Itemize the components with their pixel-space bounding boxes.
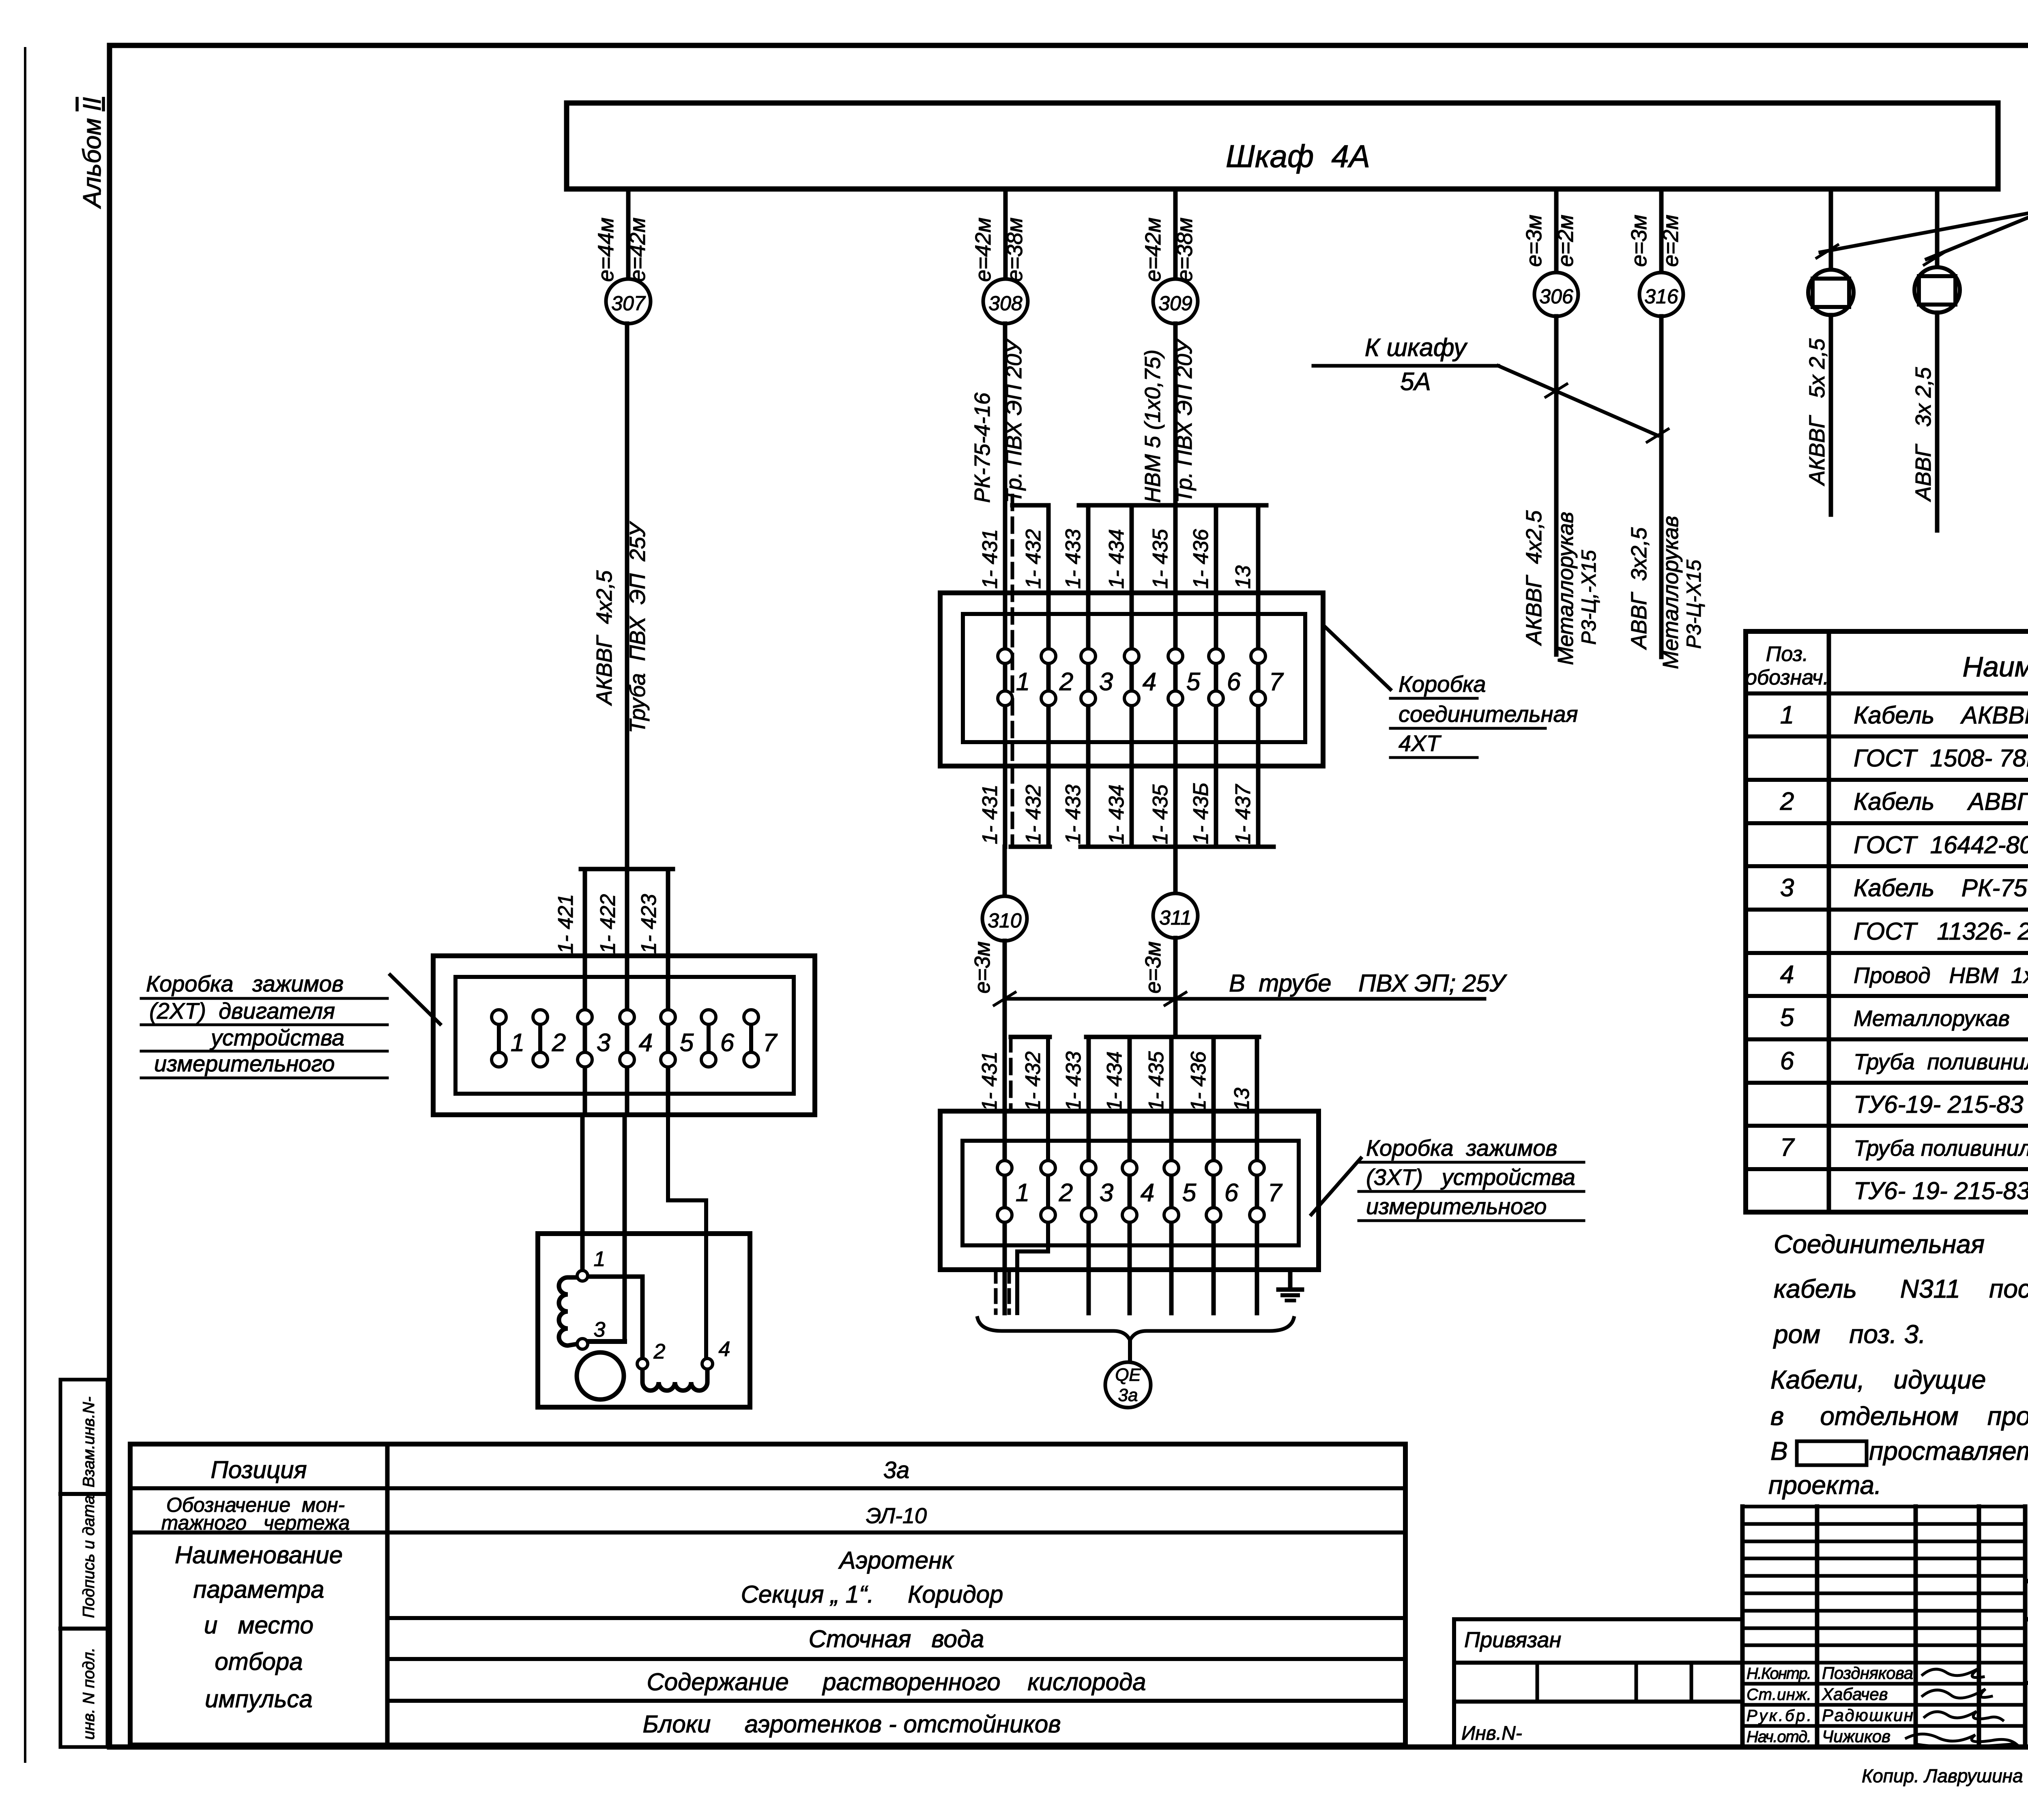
svg-text:1- 435: 1- 435 bbox=[1149, 784, 1172, 844]
leader from caption to 4XT box bbox=[1325, 627, 1390, 689]
svg-text:е=3м: е=3м bbox=[1627, 215, 1651, 267]
wire 316 continuation bbox=[1659, 316, 1664, 657]
svg-text:3: 3 bbox=[1099, 668, 1113, 696]
wire 1- 435 through 4XT bbox=[1173, 324, 1178, 847]
svg-text:1: 1 bbox=[511, 1029, 524, 1057]
svg-text:1- 433: 1- 433 bbox=[1061, 784, 1085, 844]
svg-text:5А: 5А bbox=[1400, 368, 1431, 396]
svg-text:Хабачев: Хабачев bbox=[1822, 1685, 1888, 1704]
svg-text:1- 434: 1- 434 bbox=[1105, 785, 1128, 844]
wire 309 from cabinet bbox=[1173, 189, 1178, 279]
svg-text:7: 7 bbox=[763, 1029, 778, 1057]
title block signature rows bbox=[1742, 1661, 2025, 1665]
terminal 4 of 2XT bbox=[625, 956, 629, 1115]
svg-text:ТУ6-19- 215-83: ТУ6-19- 215-83 bbox=[1854, 1091, 2024, 1118]
svg-text:Рук.бр.: Рук.бр. bbox=[1747, 1707, 1811, 1725]
svg-text:Сточная вода: Сточная вода bbox=[809, 1625, 984, 1653]
cable marker circle 310 bbox=[982, 896, 1027, 941]
svg-text:Коробка: Коробка bbox=[1399, 671, 1486, 697]
wire pin3 to terminal-4 wire bbox=[582, 1339, 625, 1344]
svg-text:ГОСТ 16442-80: ГОСТ 16442-80 bbox=[1854, 831, 2028, 858]
svg-text:3: 3 bbox=[1100, 1179, 1113, 1207]
wire 1- 431 through 3XT bbox=[1003, 1037, 1007, 1313]
svg-text:3: 3 bbox=[597, 1029, 610, 1057]
svg-text:е=2м: е=2м bbox=[1658, 215, 1683, 267]
svg-text:Металлорукав: Металлорукав bbox=[1553, 512, 1578, 665]
svg-text:инв. N подл.: инв. N подл. bbox=[80, 1648, 98, 1740]
motor pin 4 bbox=[702, 1359, 713, 1369]
cable marker circle 309 bbox=[1153, 279, 1198, 324]
svg-text:310: 310 bbox=[988, 909, 1022, 932]
svg-text:измерительного: измерительного bbox=[154, 1051, 335, 1076]
cable marker circle 311 bbox=[1153, 893, 1198, 938]
terminal 6 of 4XT bbox=[1209, 649, 1223, 663]
cable marker circle 316 bbox=[1639, 273, 1683, 316]
svg-text:кабель N311 поставляют: кабель N311 поставляются в комплекте с п… bbox=[1774, 1274, 2028, 1303]
svg-text:ЭЛ-10: ЭЛ-10 bbox=[866, 1504, 927, 1528]
document number box bbox=[2023, 1507, 2028, 1747]
svg-text:параметра: параметра bbox=[193, 1576, 324, 1603]
wire 1- 433 through 3XT bbox=[1087, 1037, 1091, 1313]
screen dashed stubs below 3XT bbox=[994, 1270, 998, 1313]
svg-text:4: 4 bbox=[1141, 1179, 1154, 1207]
svg-text:6: 6 bbox=[1227, 668, 1241, 696]
svg-text:(3ХТ) устройства: (3ХТ) устройства bbox=[1366, 1164, 1575, 1190]
screen dashed line of cable 308 bbox=[1011, 496, 1014, 846]
svg-text:В трубе ПВХ ЭП; 25У: В трубе ПВХ ЭП; 25У bbox=[1229, 970, 1508, 997]
wire below 311 bbox=[1173, 938, 1178, 1037]
wire 1-422 bbox=[625, 869, 629, 956]
svg-text:ром поз. 3.: ром поз. 3. bbox=[1773, 1320, 1926, 1349]
screen dashed line above 3XT bbox=[1009, 1037, 1013, 1110]
svg-text:ГОСТ 1508- 78Е: ГОСТ 1508- 78Е bbox=[1854, 745, 2028, 772]
wire 306 continuation bbox=[1554, 316, 1559, 655]
wire 1- 433 through 4XT bbox=[1086, 505, 1091, 847]
leader from caption to 3XT box bbox=[1311, 1158, 1361, 1215]
fan bracket above 3XT right bbox=[1086, 1035, 1259, 1039]
wire 309 continuation bbox=[1173, 324, 1178, 505]
svg-text:Чижиков: Чижиков bbox=[1822, 1727, 1891, 1746]
svg-text:проставляется номер каб: проставляется номер кабеля при привязке bbox=[1869, 1436, 2028, 1466]
cable marker circle 308 bbox=[983, 279, 1028, 324]
wire below symbol 1 bbox=[1829, 315, 1833, 515]
svg-text:316: 316 bbox=[1644, 285, 1678, 308]
svg-text:1- 431: 1- 431 bbox=[978, 785, 1002, 844]
leader line to wires 306 316 bbox=[1498, 366, 1658, 436]
svg-text:Коробка зажимов: Коробка зажимов bbox=[146, 971, 344, 996]
svg-text:Кабель РК-75-4-16: Кабель РК-75-4-16 bbox=[1854, 874, 2028, 901]
svg-text:е=3м: е=3м bbox=[1141, 941, 1165, 994]
wire to circle 310 bbox=[1003, 847, 1007, 897]
svg-text:тажного чертежа: тажного чертежа bbox=[161, 1511, 350, 1534]
svg-text:Блоки аэротенков - отстойн: Блоки аэротенков - отстойников bbox=[642, 1711, 1061, 1738]
cable marker circle 307 bbox=[606, 279, 651, 324]
wire 1- 434 through 3XT bbox=[1128, 1037, 1132, 1313]
terminal 7 of 2XT bbox=[749, 1017, 753, 1060]
cable marker circle 306 bbox=[1534, 273, 1578, 316]
wire 1- 435 through 3XT bbox=[1169, 1037, 1174, 1313]
terminal 6 of 3XT bbox=[1206, 1161, 1221, 1175]
svg-text:1- 434: 1- 434 bbox=[1103, 1052, 1126, 1111]
svg-text:1- 432: 1- 432 bbox=[1022, 529, 1045, 589]
svg-text:1- 435: 1- 435 bbox=[1145, 1051, 1168, 1111]
wire 1- 436 through 4XT bbox=[1214, 505, 1218, 847]
svg-text:1- 432: 1- 432 bbox=[1021, 1051, 1045, 1111]
svg-text:1- 433: 1- 433 bbox=[1062, 1051, 1085, 1111]
svg-text:Провод НВМ 1х 0,75 ГОСТ 17: Провод НВМ 1х 0,75 ГОСТ 17515-72 bbox=[1854, 963, 2028, 988]
motor pin 1 bbox=[577, 1271, 588, 1281]
svg-text:6: 6 bbox=[720, 1029, 735, 1057]
svg-text:7: 7 bbox=[1268, 1179, 1283, 1207]
terminal 3 of 4XT bbox=[1081, 649, 1096, 663]
wire 306 from cabinet bbox=[1554, 189, 1559, 273]
wire 13 through 4XT bbox=[1256, 505, 1261, 847]
svg-text:устройства: устройства bbox=[209, 1025, 344, 1050]
svg-text:1: 1 bbox=[1780, 701, 1794, 729]
svg-text:(2ХТ) двигателя: (2ХТ) двигателя bbox=[149, 998, 335, 1024]
wire 1- 432 through 3XT bbox=[1017, 1037, 1048, 1313]
wire below 310 bbox=[1003, 941, 1007, 1037]
materials table grid bbox=[1746, 631, 2028, 1212]
svg-text:Наименование: Наименование bbox=[1962, 651, 2028, 682]
terminal 5 of 4XT bbox=[1168, 649, 1183, 663]
svg-text:ТУ6- 19- 215-83: ТУ6- 19- 215-83 bbox=[1854, 1177, 2028, 1204]
svg-text:1: 1 bbox=[594, 1247, 606, 1271]
svg-text:3: 3 bbox=[1780, 874, 1794, 902]
leader arrow to wire 2 bbox=[1927, 210, 2028, 259]
main winding coil pins 1-3 bbox=[559, 1277, 582, 1346]
svg-text:13: 13 bbox=[1231, 565, 1255, 589]
wire 307 continuation to fanout bbox=[625, 324, 629, 869]
svg-text:6: 6 bbox=[1225, 1179, 1239, 1207]
wire 1- 434 through 4XT bbox=[1130, 505, 1134, 847]
fan bracket below 4XT left bbox=[1011, 845, 1050, 849]
wire from brace to QE bbox=[1128, 1340, 1132, 1363]
motor device box bbox=[538, 1234, 750, 1407]
svg-text:АВВГ 3х2,5: АВВГ 3х2,5 bbox=[1627, 527, 1651, 650]
wire from 2XT terminal 3 to motor pin 1 bbox=[580, 1115, 585, 1271]
fan bracket left of cable 308 bbox=[1012, 503, 1048, 508]
svg-text:Секция „ 1“. Коридор: Секция „ 1“. Коридор bbox=[741, 1581, 1003, 1608]
svg-text:Позднякова: Позднякова bbox=[1822, 1663, 1913, 1683]
auxiliary winding coil pins 2-4 bbox=[642, 1369, 707, 1391]
junction box 2XT inner bbox=[455, 977, 794, 1094]
svg-text:1: 1 bbox=[1016, 1179, 1029, 1207]
svg-text:проекта.: проекта. bbox=[1768, 1470, 1882, 1500]
junction box 4XT inner bbox=[963, 614, 1305, 742]
motor pin 2 bbox=[637, 1359, 648, 1369]
leader from caption to 2XT box bbox=[390, 975, 440, 1024]
svg-text:Подпись и дата: Подпись и дата bbox=[80, 1495, 98, 1618]
svg-text:РК-75-4-16: РК-75-4-16 bbox=[970, 392, 995, 503]
svg-text:ГОСТ 11326- 23-71: ГОСТ 11326- 23-71 bbox=[1854, 918, 2028, 945]
terminal 1 of 2XT bbox=[497, 1017, 501, 1060]
svg-text:4ХТ: 4ХТ bbox=[1399, 730, 1442, 756]
svg-text:е=42м: е=42м bbox=[971, 217, 995, 282]
svg-text:7: 7 bbox=[1780, 1133, 1795, 1161]
fan bracket above 3XT left bbox=[1011, 1035, 1050, 1039]
svg-text:307: 307 bbox=[611, 292, 646, 315]
svg-text:Аэротенк: Аэротенк bbox=[838, 1547, 955, 1574]
svg-text:1- 437: 1- 437 bbox=[1231, 783, 1255, 844]
terminal 3 of 3XT bbox=[1081, 1161, 1096, 1175]
wire 1- 432 through 4XT bbox=[1046, 505, 1051, 847]
svg-text:Ст.инж.: Ст.инж. bbox=[1747, 1686, 1811, 1704]
svg-text:2: 2 bbox=[1780, 788, 1794, 816]
svg-text:Труба ПВХ ЭП 25У: Труба ПВХ ЭП 25У bbox=[625, 521, 650, 733]
title block revision grid bbox=[1740, 1507, 1745, 1747]
svg-text:Наименование: Наименование bbox=[175, 1541, 343, 1569]
wire pin1 to pin2 bbox=[585, 1277, 642, 1359]
svg-text:QЕ: QЕ bbox=[1115, 1365, 1141, 1385]
telemetry symbol square-in-circle 1 bbox=[1808, 270, 1854, 315]
svg-text:е=44м: е=44м bbox=[594, 217, 618, 282]
svg-text:1- 422: 1- 422 bbox=[596, 894, 620, 954]
wire 307 from cabinet bbox=[626, 189, 631, 279]
svg-text:Н.Контр.: Н.Контр. bbox=[1747, 1665, 1811, 1683]
svg-text:1- 431: 1- 431 bbox=[978, 1052, 1001, 1111]
svg-text:1- 421: 1- 421 bbox=[554, 894, 578, 954]
svg-text:Р3-Ц-Х15: Р3-Ц-Х15 bbox=[1682, 560, 1705, 649]
svg-text:В: В bbox=[1770, 1436, 1788, 1466]
svg-text:Нач.отд.: Нач.отд. bbox=[1747, 1728, 1811, 1746]
terminal 7 of 4XT bbox=[1251, 649, 1265, 663]
svg-text:е=42м: е=42м bbox=[1141, 217, 1165, 282]
svg-text:2: 2 bbox=[653, 1340, 666, 1363]
svg-text:АКВВГ 4х2,5: АКВВГ 4х2,5 bbox=[1522, 510, 1546, 646]
svg-text:309: 309 bbox=[1158, 292, 1192, 315]
svg-text:Альбом II: Альбом II bbox=[78, 97, 106, 209]
svg-text:5: 5 bbox=[1182, 1179, 1197, 1207]
svg-text:1- 436: 1- 436 bbox=[1189, 529, 1213, 589]
svg-text:4: 4 bbox=[639, 1029, 653, 1057]
fanout bracket of cable 307 bbox=[581, 867, 673, 871]
wire below symbol 2 bbox=[1935, 313, 1940, 530]
svg-text:измерительного: измерительного bbox=[1366, 1193, 1547, 1219]
svg-text:импульса: импульса bbox=[205, 1685, 313, 1713]
svg-text:1: 1 bbox=[1016, 668, 1030, 696]
svg-text:308: 308 bbox=[988, 292, 1023, 315]
svg-text:Р3-Ц,-Х15: Р3-Ц,-Х15 bbox=[1577, 550, 1600, 645]
wire 13 through 3XT bbox=[1255, 1037, 1259, 1313]
svg-text:е=2м: е=2м bbox=[1553, 215, 1578, 267]
svg-text:1- 436: 1- 436 bbox=[1187, 1051, 1210, 1111]
cabinet Шкаф 4А bbox=[567, 103, 1998, 189]
svg-text:отбора: отбора bbox=[215, 1648, 303, 1675]
svg-text:Поз.: Поз. bbox=[1766, 642, 1809, 666]
svg-text:3: 3 bbox=[594, 1318, 606, 1341]
terminal 5 of 3XT bbox=[1164, 1161, 1179, 1175]
svg-text:2: 2 bbox=[552, 1029, 566, 1057]
motor pin 3 bbox=[577, 1339, 588, 1349]
wire 1-421 bbox=[583, 869, 587, 956]
svg-text:5: 5 bbox=[680, 1029, 694, 1057]
svg-text:1- 434: 1- 434 bbox=[1105, 529, 1128, 589]
svg-text:соединительная: соединительная bbox=[1399, 701, 1578, 727]
svg-text:Позиция: Позиция bbox=[211, 1456, 307, 1483]
junction box 3XT inner bbox=[962, 1141, 1299, 1245]
svg-text:306: 306 bbox=[1539, 285, 1573, 308]
ground symbol bbox=[1288, 1270, 1293, 1290]
terminal 3 of 2XT bbox=[583, 956, 587, 1115]
device circle QE 3a bbox=[1105, 1362, 1151, 1408]
svg-text:3а: 3а bbox=[1118, 1385, 1138, 1405]
paper trim line left bbox=[24, 48, 26, 1762]
svg-text:13: 13 bbox=[1230, 1088, 1254, 1111]
wire to dispatcher 1 bbox=[1829, 189, 1833, 270]
svg-text:7: 7 bbox=[1269, 668, 1284, 696]
terminal 4 of 3XT bbox=[1122, 1161, 1137, 1175]
junction box 2XT outer bbox=[433, 956, 815, 1115]
wire 1- 431 through 4XT bbox=[1003, 324, 1008, 847]
svg-text:е=38м: е=38м bbox=[1173, 217, 1197, 282]
svg-text:Инв.N-: Инв.N- bbox=[1461, 1723, 1522, 1744]
svg-text:Труба поливинилхлоридная ПВ: Труба поливинилхлоридная ПВХ ЭП; 20У bbox=[1854, 1049, 2028, 1074]
svg-text:4: 4 bbox=[1143, 668, 1156, 696]
parameter table grid bbox=[130, 1444, 1405, 1745]
terminal 4 of 4XT bbox=[1124, 649, 1139, 663]
wire 1-423 bbox=[666, 869, 670, 956]
fan bracket below 4XT right bbox=[1081, 845, 1274, 849]
svg-text:3а: 3а bbox=[883, 1457, 910, 1483]
svg-text:Шкаф 4А: Шкаф 4А bbox=[1226, 138, 1370, 174]
svg-text:4: 4 bbox=[1780, 961, 1794, 989]
terminal 5 of 2XT bbox=[666, 956, 670, 1115]
margin strip boxes bbox=[60, 1380, 107, 1747]
svg-text:1- 431: 1- 431 bbox=[978, 529, 1002, 589]
svg-text:в отдельном проекте: в отдельном проекте bbox=[1770, 1401, 2028, 1431]
terminal 2 of 3XT bbox=[1041, 1161, 1055, 1175]
svg-text:и место: и место bbox=[204, 1612, 314, 1639]
svg-text:е=3м: е=3м bbox=[1522, 215, 1546, 267]
svg-text:1- 435: 1- 435 bbox=[1149, 528, 1172, 589]
leader arrow to wire 1 bbox=[1820, 210, 2028, 252]
wire 316 from cabinet bbox=[1659, 189, 1664, 273]
svg-text:Металлорукав: Металлорукав bbox=[1658, 516, 1683, 669]
wire from 2XT terminal 4 into motor bbox=[623, 1115, 627, 1341]
svg-text:Металлорукав Р3-Ц-Х15 ТУ22.2: Металлорукав Р3-Ц-Х15 ТУ22.2173-71 bbox=[1854, 1006, 2028, 1031]
svg-text:5: 5 bbox=[1780, 1004, 1794, 1032]
wire 308 continuation bbox=[1003, 324, 1008, 505]
terminal 2 of 4XT bbox=[1041, 649, 1056, 663]
svg-text:НВМ 5 (1х0,75): НВМ 5 (1х0,75) bbox=[1141, 350, 1165, 503]
junction box 3XT outer bbox=[940, 1111, 1319, 1270]
svg-text:Коробка зажимов: Коробка зажимов bbox=[1366, 1135, 1558, 1161]
signature scribbles bbox=[1923, 1668, 1983, 1678]
wire to circle 311 bbox=[1173, 847, 1178, 894]
svg-text:Кабель АКВВГ 4х2,5: Кабель АКВВГ 4х2,5 bbox=[1854, 702, 2028, 729]
wire to dispatcher 2 bbox=[1935, 189, 1940, 268]
svg-text:Взам.инв.N-: Взам.инв.N- bbox=[80, 1397, 98, 1487]
svg-text:311: 311 bbox=[1159, 906, 1192, 929]
wire 1- 436 through 3XT bbox=[1212, 1037, 1216, 1313]
svg-text:АКВВГ 5х 2,5: АКВВГ 5х 2,5 bbox=[1805, 338, 1829, 486]
wire from 2XT terminal 5 into motor bbox=[668, 1115, 706, 1358]
svg-text:2: 2 bbox=[1059, 1179, 1073, 1207]
svg-text:Содержание растворенного: Содержание растворенного кислорода bbox=[647, 1668, 1146, 1696]
svg-text:Кабель АВВГ 3х2,5: Кабель АВВГ 3х2,5 bbox=[1854, 788, 2028, 815]
terminal 7 of 3XT bbox=[1250, 1161, 1264, 1175]
terminal 1 of 4XT bbox=[998, 649, 1012, 663]
svg-text:е=3м: е=3м bbox=[970, 941, 995, 994]
svg-text:Кабели, идущие к щит: Кабели, идущие к щиту диспетчера, учитыв… bbox=[1770, 1365, 2028, 1394]
svg-text:АКВВГ 4х2,5: АКВВГ 4х2,5 bbox=[592, 570, 617, 706]
svg-text:6: 6 bbox=[1780, 1047, 1794, 1075]
svg-text:К шкафу: К шкафу bbox=[1365, 334, 1468, 362]
svg-text:Копир. Лаврушина: Копир. Лаврушина bbox=[1862, 1765, 2023, 1786]
svg-text:е=42м: е=42м bbox=[625, 217, 650, 282]
svg-text:обознач.: обознач. bbox=[1745, 666, 1829, 689]
svg-text:АВВГ 3х 2,5: АВВГ 3х 2,5 bbox=[1911, 367, 1936, 502]
svg-text:1- 433: 1- 433 bbox=[1061, 529, 1085, 589]
terminal 1 of 3XT bbox=[997, 1161, 1012, 1175]
svg-text:Соединительная коробка: Соединительная коробка 4ХТ, провод №310 … bbox=[1774, 1230, 2028, 1259]
brace under 3XT wires bbox=[977, 1318, 1294, 1340]
terminal 6 of 2XT bbox=[707, 1017, 711, 1060]
attachment box Привязан bbox=[1454, 1619, 1742, 1747]
svg-text:е=38м: е=38м bbox=[1003, 217, 1027, 282]
wire 308 from cabinet bbox=[1003, 189, 1008, 279]
svg-text:5: 5 bbox=[1186, 668, 1201, 696]
svg-text:1- 432: 1- 432 bbox=[1022, 784, 1045, 844]
motor circle symbol bbox=[577, 1352, 624, 1399]
svg-text:Труба поливинилхлоридная ПВХ: Труба поливинилхлоридная ПВХ ЭП; 25У bbox=[1854, 1135, 2028, 1161]
svg-text:4: 4 bbox=[719, 1337, 730, 1361]
telemetry symbol square-in-circle 2 bbox=[1914, 267, 1960, 313]
fan bracket of cable 309 bbox=[1079, 503, 1266, 508]
junction box 4XT outer bbox=[940, 593, 1323, 766]
svg-text:1- 43Б: 1- 43Б bbox=[1189, 783, 1213, 844]
terminal 2 of 2XT bbox=[538, 1017, 542, 1060]
svg-text:1- 423: 1- 423 bbox=[637, 894, 661, 954]
svg-text:Радюшкин: Радюшкин bbox=[1822, 1706, 1913, 1725]
svg-text:2: 2 bbox=[1059, 668, 1073, 696]
svg-text:Привязан: Привязан bbox=[1464, 1628, 1561, 1652]
